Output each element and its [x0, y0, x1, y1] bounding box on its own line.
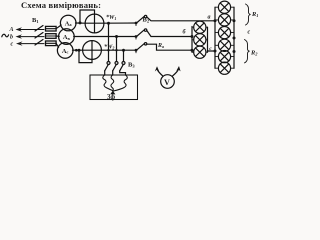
lamp A3: [194, 46, 206, 58]
switch B1 blade phase A: [35, 26, 43, 32]
load box: [90, 75, 138, 100]
wattmeter W1: [85, 14, 104, 33]
terminal b: [115, 62, 118, 65]
wire phase c with arrow: [21, 43, 44, 45]
switch B3 blade a: [105, 64, 109, 70]
AC source symbol: [2, 34, 9, 37]
junction dot Ac wire: [75, 49, 78, 52]
wattmeter W2 voltage coil line: [91, 41, 93, 60]
junction dot W1 tap: [79, 21, 82, 24]
fuse phase b: [46, 34, 57, 39]
switch B3 blade c: [120, 64, 124, 70]
junction dot right bus top: [233, 19, 236, 22]
wattmeter W1 voltage coil line: [94, 14, 96, 33]
lamp B3: [218, 26, 230, 38]
wattmeter W1 current path: [85, 22, 104, 24]
terminal a: [107, 62, 110, 65]
junction dot W2 tap: [78, 49, 81, 52]
wire fuse to ammeter Ac: [56, 43, 59, 47]
switch B1 blade phase b: [35, 33, 43, 39]
svg-text:c: c: [11, 41, 14, 47]
switch B2 contact b: [144, 29, 146, 31]
wattmeter W2: [83, 41, 102, 60]
svg-text:*W1: *W1: [106, 14, 116, 21]
svg-text:c: c: [248, 30, 251, 36]
svg-text:Ас: Ас: [62, 48, 69, 55]
node c link: [208, 50, 216, 52]
junction dot B2 input c: [135, 49, 138, 52]
junction dot c feed: [191, 49, 194, 52]
switch B2 hinge tick a: [135, 23, 137, 26]
lamp B1: [218, 1, 230, 13]
junction dot right bus low: [233, 50, 236, 53]
drop wire c: [123, 50, 125, 61]
junction dot B2 input b: [135, 35, 138, 38]
ammeter Aa: [60, 15, 76, 31]
wire Aa to W1: [76, 22, 86, 24]
wire b after B2 to node b: [147, 31, 192, 37]
svg-text:Rа: Rа: [157, 43, 164, 49]
drop wire a: [108, 23, 110, 61]
junction blob crossing b-c: [115, 49, 117, 51]
ammeter Ab: [59, 29, 75, 45]
fuse phase A: [46, 26, 57, 31]
lamp B5: [218, 51, 230, 63]
wire a after B2: [147, 17, 215, 21]
switch B3 wire b to box: [112, 71, 114, 75]
wire fuse to ammeter Aa: [56, 25, 61, 29]
svg-text:R1: R1: [251, 11, 258, 18]
star point: [110, 91, 115, 95]
switch B1 blade phase c: [35, 40, 43, 46]
switch B2 hinge tick b: [135, 37, 137, 40]
lamp bank column B left bus: [214, 7, 216, 68]
junction dot b node: [191, 35, 194, 38]
switch B2 contact c: [144, 43, 146, 45]
switch B2 blade b: [137, 30, 145, 36]
switch B3 wire a to box: [104, 71, 106, 75]
svg-text:В1: В1: [32, 17, 39, 24]
svg-text:Аа: Аа: [65, 20, 73, 27]
brace R2: [245, 40, 250, 63]
winding left: [103, 75, 114, 91]
lamp A1: [194, 21, 206, 33]
svg-text:Схема вимірювань:: Схема вимірювань:: [21, 0, 101, 10]
wire phase b with arrow: [20, 36, 44, 38]
svg-text:Ав: Ав: [63, 34, 71, 41]
wattmeter W2 current path: [83, 49, 102, 51]
voltmeter probe left: [157, 70, 163, 77]
switch B2 contact a: [144, 15, 146, 17]
junction dot a node: [214, 19, 217, 22]
winding right: [113, 75, 127, 91]
svg-text:V: V: [164, 78, 170, 87]
switch B3 blade b: [113, 64, 117, 70]
junction dot drop b: [115, 35, 118, 38]
switch B3 wire c to box: [120, 71, 126, 75]
lamp B4: [218, 39, 230, 51]
switch B2 blade a: [137, 17, 145, 23]
lamp bank column B right bus: [233, 7, 235, 68]
junction dot right bus mid: [233, 37, 236, 40]
junction dot c node: [214, 50, 217, 53]
wire phase A with arrow: [19, 29, 44, 31]
voltmeter probe right: [172, 70, 178, 77]
wire fuse to ammeter Ab: [56, 35, 59, 37]
svg-text:3ф: 3ф: [107, 94, 115, 101]
junction blob crossing a-c: [107, 49, 109, 51]
wire Ab phase b bus: [74, 36, 136, 38]
wattmeter W1 voltage tap loop: [80, 10, 95, 23]
svg-text:b: b: [10, 34, 13, 40]
wire phase a bus to B2: [104, 22, 136, 24]
wire Ac to W2: [73, 49, 83, 51]
wattmeter W2 voltage tap loop: [79, 50, 92, 62]
fuse phase c: [46, 41, 57, 46]
switch B2 blade c: [137, 44, 145, 50]
brace R1: [246, 4, 251, 25]
svg-text:a: a: [208, 15, 211, 21]
winding middle: [111, 75, 114, 91]
junction dot B2 input a: [135, 22, 138, 25]
svg-text:A: A: [9, 27, 14, 33]
lamp B2: [218, 14, 230, 26]
junction dot drop a: [107, 22, 110, 25]
terminal c: [122, 62, 125, 65]
svg-text:R2: R2: [250, 50, 258, 57]
voltmeter V: [161, 75, 175, 89]
wire phase c bus to B2: [101, 49, 136, 51]
wire c after B2: [147, 44, 192, 50]
drop wire b: [116, 37, 118, 62]
ammeter Ac: [57, 43, 73, 59]
junction dot drop c: [122, 49, 125, 52]
lamp B6: [218, 62, 230, 74]
lamp A2: [194, 34, 206, 46]
lamp bank column A left bus: [191, 27, 193, 53]
svg-text:В3: В3: [128, 62, 135, 69]
lamp bank column A right bus: [207, 27, 209, 52]
switch B2 hinge tick c: [135, 50, 137, 53]
